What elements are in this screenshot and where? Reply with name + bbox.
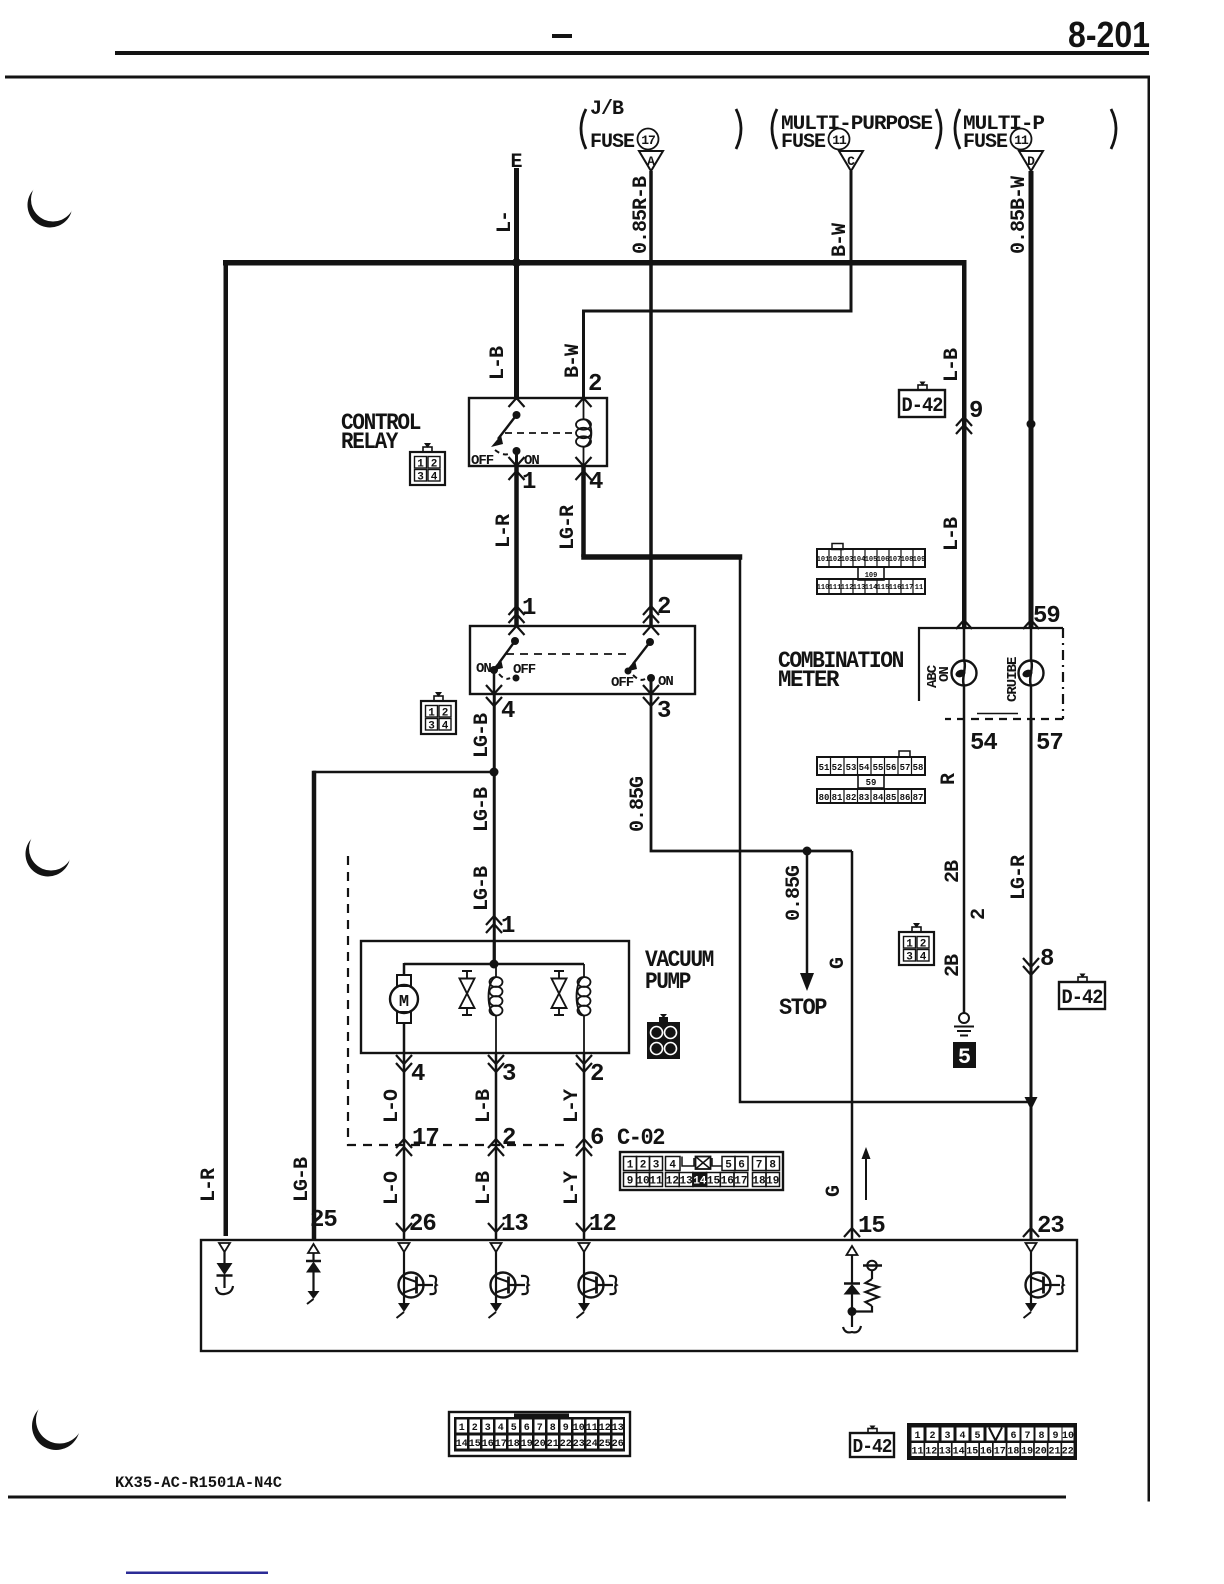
ECU box (201, 1240, 1077, 1351)
right switch ON dot (647, 674, 655, 682)
svg-text:106: 106 (877, 556, 890, 564)
svg-text:7: 7 (1024, 1431, 1030, 1442)
svg-text:11: 11 (649, 1176, 663, 1188)
svg-text:CRUIBE: CRUIBE (1005, 657, 1021, 702)
chevrons below pump pin4 (396, 1055, 412, 1072)
binder hole crescent 3 (32, 1397, 83, 1451)
svg-text:15: 15 (858, 1213, 885, 1240)
relay link dashed to coil (505, 432, 577, 434)
D-42 pinout connector (908, 1424, 1076, 1459)
svg-text:56: 56 (886, 763, 897, 773)
svg-text:PUMP: PUMP (645, 969, 691, 995)
chevrons above switch pin 1 (509, 606, 525, 623)
header underline (115, 51, 1149, 55)
svg-text:L-Y: L-Y (561, 1089, 584, 1123)
binder hole crescent 2 (26, 827, 74, 877)
svg-text:22: 22 (1062, 1447, 1074, 1458)
solenoid valve 1 (460, 971, 475, 1015)
svg-text:17: 17 (495, 1439, 507, 1450)
wire R/2B from pin 54 to ground (963, 719, 966, 1013)
svg-text:10: 10 (1062, 1431, 1074, 1442)
relay pin1 chevron below (509, 471, 525, 480)
pump internal bus (404, 963, 584, 966)
relay coil (576, 398, 591, 466)
CRUIBE lamp (1019, 661, 1044, 686)
svg-text:101: 101 (817, 556, 830, 564)
svg-text:8: 8 (1040, 946, 1054, 973)
svg-text:7: 7 (756, 1160, 763, 1172)
svg-text:82: 82 (846, 793, 857, 803)
svg-text:LG-R: LG-R (1008, 855, 1031, 900)
svg-text:2: 2 (968, 909, 991, 920)
relay contact to pin1 wire (515, 451, 518, 466)
svg-text:J/B: J/B (590, 98, 624, 121)
svg-text:STOP: STOP (779, 995, 827, 1021)
transistor Q1 (397, 1243, 437, 1318)
wire 0.85B-W from fuse D (1029, 171, 1034, 628)
svg-text:14: 14 (953, 1447, 965, 1458)
connector pass D-42 pin 9 (956, 417, 972, 434)
svg-text:L-R: L-R (198, 1168, 221, 1202)
svg-text:2: 2 (588, 371, 601, 398)
svg-text:18: 18 (1007, 1447, 1019, 1458)
svg-text:8: 8 (1038, 1431, 1044, 1442)
junction dot LG-B (490, 768, 499, 777)
svg-text:8: 8 (550, 1423, 556, 1434)
svg-text:G: G (823, 1185, 846, 1197)
chevron above box pin12 (576, 1223, 592, 1232)
J/B FUSE 17 label group (581, 98, 741, 154)
connector D-42 symbol upper (899, 382, 945, 419)
svg-text:2: 2 (657, 594, 670, 621)
vacuum pump box (361, 941, 629, 1053)
D-42 connector symbol bottom (850, 1426, 894, 1459)
MULTI-PURPOSE FUSE 11 label group (772, 109, 941, 154)
svg-text:LG-B: LG-B (471, 787, 494, 832)
svg-text:4: 4 (667, 1046, 673, 1057)
svg-text:3: 3 (944, 1431, 950, 1442)
meter entry mark L-B (956, 620, 972, 629)
wire LG-R thick horizontal (581, 554, 742, 560)
chevron below switch pin4 (486, 697, 502, 706)
left switch pivot (511, 637, 519, 645)
wire left drop L-R (224, 260, 229, 1236)
svg-text:26: 26 (409, 1211, 436, 1238)
svg-text:L-O: L-O (381, 1171, 404, 1205)
svg-text:13: 13 (501, 1211, 528, 1238)
svg-text:110: 110 (817, 584, 830, 592)
fuse tap triangle A (639, 151, 663, 171)
svg-text:84: 84 (873, 793, 884, 803)
svg-text:5: 5 (974, 1431, 980, 1442)
svg-text:20: 20 (534, 1439, 546, 1450)
wire ABC lamp to pin 54 (963, 686, 966, 719)
svg-text:51: 51 (819, 763, 830, 773)
svg-text:5: 5 (511, 1423, 517, 1434)
chevron above box pin26 (396, 1223, 412, 1232)
svg-text:3: 3 (653, 1046, 659, 1057)
svg-text:10: 10 (573, 1423, 585, 1434)
svg-text:G: G (827, 957, 850, 969)
svg-text:14: 14 (456, 1439, 468, 1450)
relay pin4 chevron below (576, 471, 592, 480)
dashed harness boundary (348, 856, 571, 1145)
svg-text:83: 83 (859, 793, 870, 803)
C-02 pinout connector (449, 1412, 630, 1456)
MULTI-P FUSE 11 label group (955, 109, 1116, 154)
svg-text:OFF: OFF (611, 675, 634, 691)
svg-text:B-W: B-W (829, 223, 852, 257)
pin23 transistor (1024, 1243, 1064, 1318)
left switch ON dot (490, 666, 498, 674)
pin15 clamp diode input triangle (847, 1246, 858, 1255)
fuse tap triangle D (1019, 151, 1043, 171)
control relay box (469, 398, 607, 466)
switch entry mark pin2 (643, 626, 659, 635)
svg-text:KX35-AC-R1501A-N4C: KX35-AC-R1501A-N4C (115, 1474, 282, 1492)
svg-text:54: 54 (970, 730, 997, 757)
svg-text:17: 17 (641, 133, 655, 148)
left switch arm (499, 641, 515, 663)
svg-text:58: 58 (913, 763, 924, 773)
svg-text:16: 16 (980, 1447, 992, 1458)
svg-text:111: 111 (829, 584, 842, 592)
svg-text:12: 12 (589, 1211, 616, 1238)
junction dot E/bus (512, 258, 521, 267)
svg-text:105: 105 (865, 556, 878, 564)
svg-text:3: 3 (657, 698, 671, 725)
svg-text:15: 15 (707, 1176, 721, 1188)
wire LG-R relay4 (581, 466, 586, 557)
meter connector strip C-04 (817, 544, 926, 595)
right switch arm (633, 642, 650, 664)
svg-text:0.85R-B: 0.85R-B (630, 176, 653, 254)
svg-text:23: 23 (1037, 1213, 1064, 1240)
svg-text:1: 1 (653, 1030, 659, 1041)
chevrons below pump pin3 (488, 1055, 504, 1072)
svg-text:12: 12 (599, 1423, 611, 1434)
svg-text:4: 4 (589, 469, 603, 496)
meter entry mark 59 (1023, 620, 1039, 629)
svg-text:0.85G: 0.85G (783, 865, 806, 921)
wire into ABC lamp (963, 628, 966, 661)
svg-text:17: 17 (994, 1447, 1006, 1458)
svg-text:2: 2 (590, 1061, 603, 1088)
binder hole crescent 1 (28, 178, 76, 228)
svg-text:102: 102 (829, 556, 842, 564)
pump connector 4-pin black (647, 1014, 680, 1059)
svg-text:A: A (647, 154, 655, 169)
svg-text:L-R: L-R (493, 514, 516, 548)
splice dot on 0.85B-W (1027, 420, 1036, 429)
chevron below switch pin3 (643, 697, 659, 706)
junction arrow into LG-R wire (1025, 1097, 1038, 1110)
fuse tap triangle C (839, 151, 863, 171)
relay switch arm (498, 415, 517, 439)
arrow to STOP (806, 851, 809, 975)
svg-text:21: 21 (1048, 1447, 1060, 1458)
svg-text:2: 2 (667, 1030, 673, 1041)
meter box (919, 628, 1063, 719)
pin15 resistor (852, 1261, 882, 1312)
svg-text:13: 13 (939, 1447, 951, 1458)
ground strokes (954, 1027, 974, 1036)
svg-text:8-201: 8-201 (1068, 14, 1150, 55)
chevrons above switch pin 2 (643, 606, 659, 623)
chevrons C-02 pin17 (396, 1139, 412, 1156)
svg-text:116: 116 (889, 584, 902, 592)
svg-text:20: 20 (1035, 1447, 1047, 1458)
relay exit mark pin 1 (509, 457, 525, 466)
svg-text:108: 108 (901, 556, 914, 564)
junction dot STOP branch (803, 847, 812, 856)
svg-text:LG-B: LG-B (471, 713, 494, 758)
svg-text:L-B: L-B (941, 517, 964, 551)
solenoid coil 2 (577, 964, 591, 1053)
svg-text:59: 59 (1033, 603, 1060, 630)
svg-text:59: 59 (866, 778, 877, 788)
svg-text:53: 53 (846, 763, 857, 773)
svg-text:6: 6 (738, 1160, 745, 1172)
svg-text:19: 19 (521, 1439, 533, 1450)
wire LG-R from pin 57 to pin 23 (1030, 719, 1033, 1240)
svg-text:C-02: C-02 (617, 1125, 665, 1151)
relay ON contact dot (513, 447, 521, 455)
svg-text:115: 115 (877, 584, 890, 592)
chevrons above pump pin 1 (486, 916, 502, 933)
svg-text:ON: ON (937, 667, 953, 682)
relay switch pivot (513, 411, 521, 419)
svg-text:54: 54 (859, 763, 870, 773)
diode D1 (216, 1252, 233, 1294)
svg-text:10: 10 (636, 1176, 649, 1188)
svg-text:L-Y: L-Y (561, 1171, 584, 1205)
chevrons C-02 pin2 (488, 1139, 504, 1156)
svg-text:1: 1 (914, 1431, 920, 1442)
svg-text:9: 9 (1052, 1431, 1058, 1442)
svg-text:25: 25 (310, 1207, 337, 1234)
svg-text:55: 55 (873, 763, 884, 773)
wire G down to pin 15 (851, 851, 854, 1240)
svg-text:117: 117 (901, 584, 914, 592)
svg-text:52: 52 (832, 763, 843, 773)
motor out wire (403, 1023, 406, 1053)
svg-text:5: 5 (725, 1160, 732, 1172)
left switch wire to pin 4 (493, 670, 496, 694)
svg-text:FUSE: FUSE (781, 131, 826, 154)
connector D-42 symbol lower (1059, 974, 1105, 1011)
ground point 5 (953, 1042, 976, 1068)
svg-text:4: 4 (411, 1061, 425, 1088)
wire 0.85G from switch pin3 (651, 694, 852, 851)
flow arrow beside G wire (865, 1155, 867, 1200)
svg-text:0.85G: 0.85G (627, 776, 650, 832)
ground terminal circle (959, 1013, 969, 1023)
svg-text:RELAY: RELAY (341, 429, 399, 455)
svg-text:18: 18 (508, 1439, 520, 1450)
svg-text:26: 26 (612, 1439, 624, 1450)
wire LG-R link down and across to pin23 (740, 557, 1031, 1102)
wire L-B from E down to relay (514, 168, 519, 400)
svg-text:15: 15 (469, 1439, 481, 1450)
svg-text:6: 6 (524, 1423, 530, 1434)
chevron above box pin 15 (844, 1228, 860, 1237)
wire LG-B left drop (312, 771, 317, 1241)
wire bus horizontal (223, 260, 967, 266)
diode D1 input triangle (219, 1243, 230, 1252)
svg-text:9: 9 (969, 398, 982, 425)
switch gang link dashed (506, 653, 630, 655)
svg-text:FUSE: FUSE (963, 131, 1008, 154)
C-02 connector drawing (620, 1152, 783, 1190)
pump out wires to box bottom (403, 1053, 406, 1240)
svg-text:M: M (399, 993, 409, 1012)
right switch wire to pin 3 (650, 678, 653, 694)
ABC ON lamp (952, 661, 977, 686)
pump internal feed wire (493, 941, 496, 964)
svg-text:8: 8 (769, 1160, 776, 1172)
svg-text:107: 107 (889, 556, 902, 564)
svg-text:13: 13 (612, 1423, 624, 1434)
svg-text:3: 3 (502, 1061, 516, 1088)
svg-text:25: 25 (599, 1439, 611, 1450)
chevrons D-42 pin 8 (1023, 958, 1039, 975)
wire into CRUIBE lamp (1030, 628, 1033, 661)
chevron above box pin 23 (1023, 1228, 1039, 1237)
svg-text:9: 9 (627, 1176, 634, 1188)
svg-text:1: 1 (627, 1160, 634, 1172)
svg-text:4: 4 (669, 1160, 676, 1172)
svg-text:12: 12 (925, 1447, 937, 1458)
svg-text:6: 6 (590, 1125, 604, 1152)
svg-text:1: 1 (459, 1423, 465, 1434)
relay exit mark pin 4 (576, 457, 592, 466)
svg-text:LG-B: LG-B (471, 866, 494, 911)
wire LG-B from switch pin4 (493, 694, 496, 964)
svg-text:15: 15 (966, 1447, 978, 1458)
meter connector strip C-05 (817, 751, 925, 803)
svg-text:9: 9 (563, 1423, 569, 1434)
svg-text:19: 19 (1021, 1447, 1033, 1458)
svg-text:2B: 2B (942, 860, 965, 883)
switch connector 4-pin symbol (421, 692, 456, 734)
wire CRUIBE lamp to pin 57 (1030, 686, 1033, 719)
svg-text:L-B: L-B (473, 1089, 496, 1123)
svg-text:57: 57 (1036, 730, 1063, 757)
svg-text:0.85B-W: 0.85B-W (1008, 176, 1031, 254)
svg-text:4: 4 (959, 1431, 965, 1442)
svg-text:13: 13 (679, 1176, 693, 1188)
svg-text:11: 11 (911, 1447, 923, 1458)
svg-text:109: 109 (865, 572, 878, 580)
svg-text:L-O: L-O (381, 1089, 404, 1123)
svg-text:11: 11 (915, 584, 923, 592)
chevrons below pump pin2 (576, 1055, 592, 1072)
svg-text:2: 2 (472, 1423, 478, 1434)
svg-text:16: 16 (721, 1176, 734, 1188)
svg-text:C: C (847, 154, 855, 169)
chevrons C-02 pin6 (576, 1139, 592, 1156)
relay entry mark pin from E (509, 398, 525, 407)
svg-text:FUSE: FUSE (590, 131, 635, 154)
svg-text:D: D (1027, 154, 1035, 169)
A/C switch box (470, 626, 695, 694)
svg-text:24: 24 (586, 1439, 598, 1450)
wire B-W from fuse C (584, 171, 852, 398)
blue mark bottom (126, 1572, 268, 1575)
page border right (1148, 76, 1151, 1502)
svg-text:114: 114 (865, 584, 878, 592)
svg-text:18: 18 (752, 1176, 766, 1188)
svg-text:12: 12 (666, 1176, 679, 1188)
svg-text:1: 1 (522, 595, 536, 622)
transistor Q3 (577, 1243, 617, 1318)
svg-text:6: 6 (1010, 1431, 1016, 1442)
wire L-R relay1 to switch (514, 466, 519, 626)
left switch OFF dot (513, 675, 520, 682)
pump internal junction dot (490, 960, 499, 969)
svg-text:3: 3 (653, 1160, 660, 1172)
svg-text:14: 14 (693, 1176, 707, 1188)
svg-text:LG-B: LG-B (291, 1157, 314, 1202)
motor branch wire (403, 963, 406, 976)
wire LG-B branch left (313, 771, 494, 774)
svg-text:METER: METER (778, 667, 840, 693)
svg-text:ON: ON (524, 453, 539, 469)
svg-text:1: 1 (501, 913, 515, 940)
header center dash (552, 34, 572, 38)
pin15 clamp diode (843, 1255, 861, 1332)
svg-text:103: 103 (841, 556, 854, 564)
motor M (390, 975, 418, 1023)
svg-text:11: 11 (1014, 133, 1029, 148)
svg-text:3: 3 (485, 1423, 491, 1434)
right switch OFF dot (625, 668, 632, 675)
solenoid valve 2 (552, 971, 567, 1015)
switch exit mark pin3 (643, 685, 659, 694)
svg-text:2: 2 (640, 1160, 647, 1172)
svg-text:17: 17 (734, 1176, 747, 1188)
svg-text:ON: ON (476, 661, 491, 677)
svg-text:LG-R: LG-R (557, 505, 580, 550)
svg-text:22: 22 (560, 1439, 572, 1450)
svg-text:23: 23 (573, 1439, 585, 1450)
svg-text:85: 85 (886, 793, 897, 803)
footer rule (8, 1496, 1066, 1499)
transistor Q2 (489, 1243, 529, 1318)
svg-text:1: 1 (522, 469, 536, 496)
solenoid coil 1 (489, 964, 503, 1053)
svg-text:11: 11 (586, 1423, 598, 1434)
right switch pivot (646, 638, 654, 646)
svg-text:11: 11 (832, 133, 847, 148)
svg-text:2B: 2B (942, 954, 965, 977)
chevron above box pin13 (488, 1223, 504, 1232)
svg-text:109: 109 (913, 556, 926, 564)
svg-text:L-B: L-B (473, 1171, 496, 1205)
wire 0.85R-B from fuse A (649, 171, 653, 626)
relay arm-to-ON dashed (495, 450, 511, 454)
diode D2 output triangle (308, 1244, 319, 1253)
wire right drop L-B to meter (962, 260, 967, 628)
page border top (5, 76, 1150, 79)
svg-text:57: 57 (900, 763, 911, 773)
svg-text:OFF: OFF (471, 453, 494, 469)
svg-text:ON: ON (658, 674, 673, 690)
relay connector 4-pin symbol (410, 443, 445, 485)
switch entry mark pin1 (509, 626, 525, 635)
svg-text:86: 86 (900, 793, 911, 803)
